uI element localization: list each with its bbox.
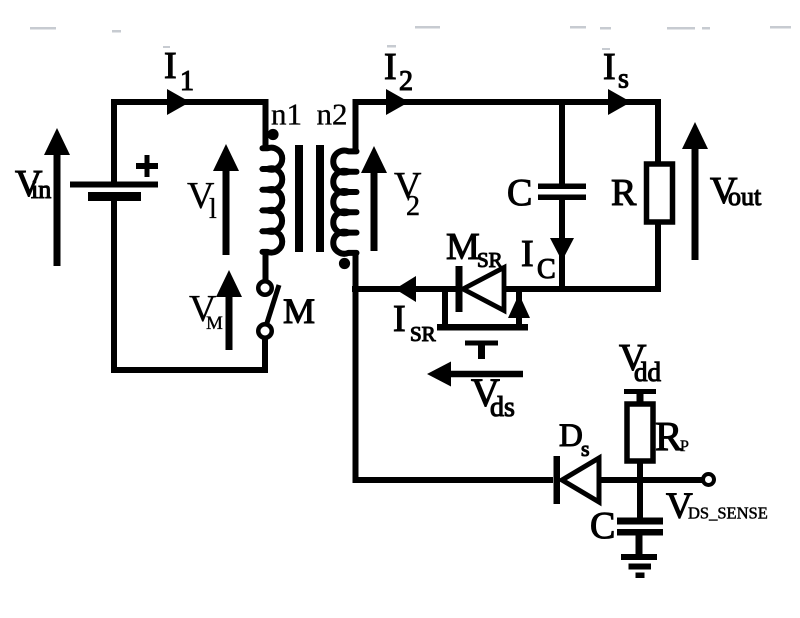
svg-text:I: I (384, 46, 397, 88)
svg-text:C: C (590, 505, 615, 547)
svg-text:C: C (537, 254, 556, 285)
svg-text:I: I (164, 45, 177, 87)
svg-text:I: I (603, 46, 616, 88)
svg-text:in: in (31, 175, 51, 204)
svg-text:out: out (728, 182, 762, 211)
svg-text:2: 2 (406, 191, 420, 222)
svg-text:I: I (393, 298, 406, 340)
svg-text:M: M (206, 313, 223, 334)
svg-text:s: s (581, 436, 590, 461)
svg-text:2: 2 (399, 66, 413, 97)
svg-text:M: M (446, 226, 480, 268)
svg-text:SR: SR (477, 248, 503, 272)
svg-text:I: I (521, 233, 534, 275)
svg-text:D: D (559, 418, 583, 454)
svg-text:R: R (655, 413, 683, 459)
svg-text:P: P (680, 438, 689, 455)
svg-text:l: l (209, 194, 217, 225)
svg-text:n1: n1 (271, 97, 302, 132)
svg-text:n2: n2 (317, 97, 348, 132)
svg-text:s: s (618, 64, 629, 95)
svg-text:1: 1 (180, 66, 194, 97)
svg-text:C: C (507, 172, 532, 214)
svg-text:R: R (611, 172, 637, 214)
svg-text:ds: ds (490, 392, 515, 423)
svg-text:dd: dd (634, 357, 662, 387)
svg-text:DS_SENSE: DS_SENSE (688, 504, 768, 523)
svg-text:M: M (283, 291, 315, 331)
svg-text:SR: SR (410, 322, 436, 346)
